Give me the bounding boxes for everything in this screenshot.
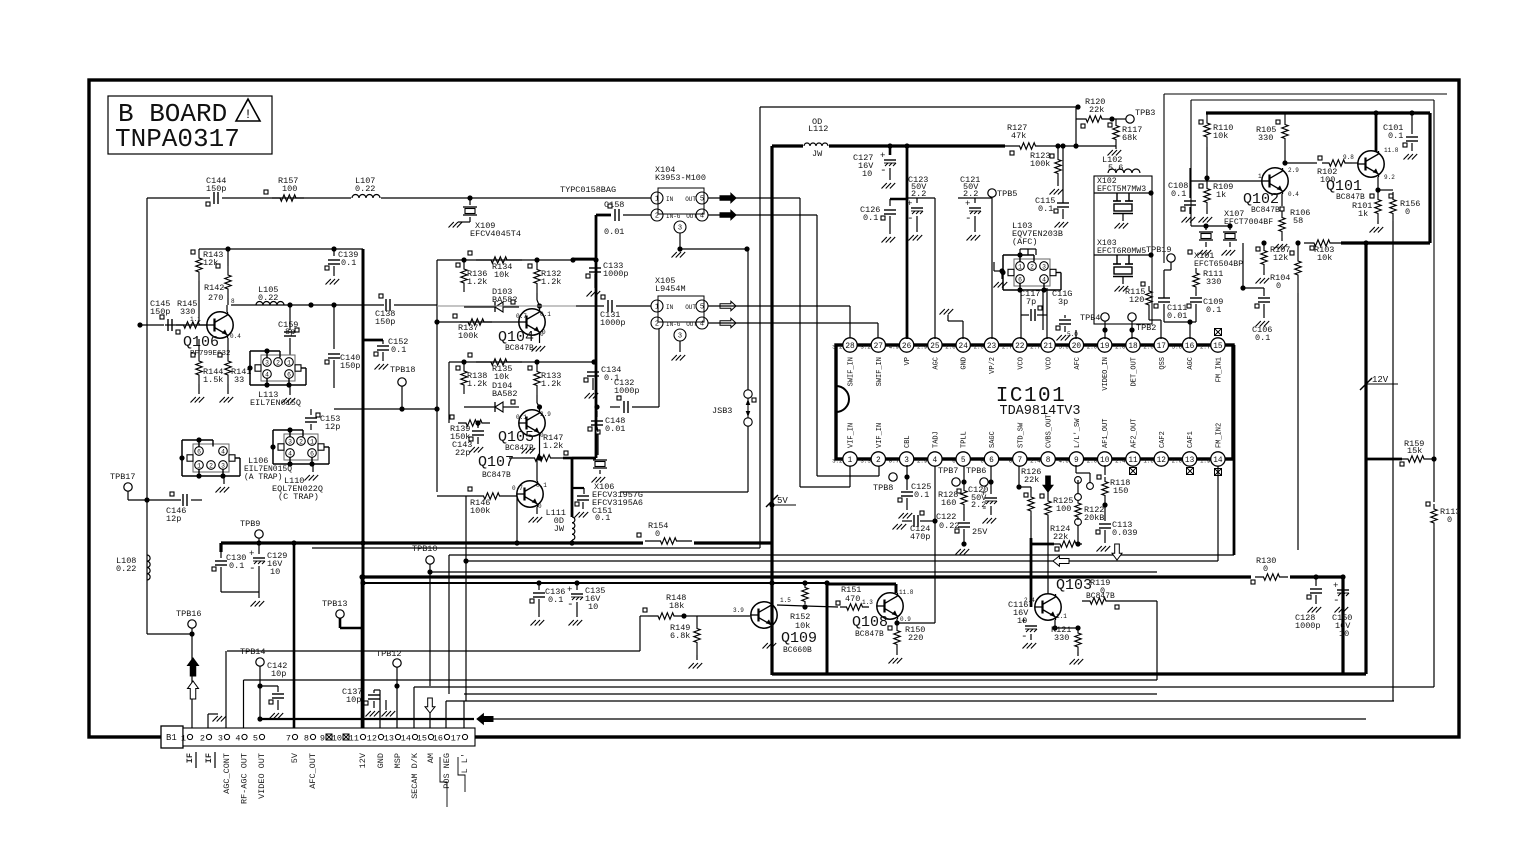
svg-text:8: 8 [231, 298, 235, 305]
svg-text:10p: 10p [271, 669, 286, 679]
transistor Q103 [1024, 577, 1115, 620]
wire Q104 base wire [437, 321, 519, 323]
svg-text:1.9: 1.9 [1200, 458, 1211, 465]
wire Q107 emitter gnd [529, 507, 543, 523]
arrow X104 out2 [720, 210, 736, 219]
svg-text:1: 1 [1018, 264, 1022, 271]
svg-text:TPB12: TPB12 [376, 649, 402, 659]
wire Q107 col [536, 458, 538, 481]
svg-text:3.2: 3.2 [832, 458, 843, 465]
svg-text:10k: 10k [1317, 253, 1332, 263]
title box [108, 96, 272, 154]
wire thin rect right [1164, 94, 1447, 459]
wire y651 to R148 [227, 616, 648, 651]
svg-text:150p: 150p [206, 184, 226, 194]
svg-text:2.0: 2.0 [1087, 458, 1098, 465]
svg-text:2.2: 2.2 [911, 189, 926, 199]
capacitor C127 [853, 143, 896, 188]
svg-text:BF799E632: BF799E632 [190, 350, 231, 358]
svg-text:5: 5 [961, 457, 966, 465]
svg-text:2.0: 2.0 [1115, 344, 1126, 351]
svg-text:2.4: 2.4 [1115, 458, 1126, 465]
resistor R157 [264, 176, 304, 201]
arrow down open pin15 [425, 698, 435, 713]
svg-text:L L': L L' [460, 753, 470, 773]
wire X104 to IC pin1 [708, 197, 800, 199]
wire Q101 col thick [1373, 110, 1378, 152]
svg-text:1.5: 1.5 [780, 597, 791, 604]
connector pins [181, 734, 468, 744]
transistor Q108 [852, 589, 914, 639]
resistor R123 [1030, 146, 1063, 195]
wire Q109 collector [777, 597, 838, 607]
resistor R119 [1078, 578, 1157, 680]
title text B BOARD [118, 99, 227, 129]
svg-text:EFCV4045T4: EFCV4045T4 [470, 229, 521, 239]
capacitor C143 [452, 423, 484, 458]
svg-text:2.0: 2.0 [974, 344, 985, 351]
svg-text:0.1: 0.1 [516, 414, 527, 421]
wire R120 step [1075, 104, 1080, 119]
svg-text:6: 6 [310, 451, 314, 458]
svg-text:R142: R142 [204, 283, 224, 293]
capacitor C106 [1252, 288, 1272, 343]
svg-text:6: 6 [287, 372, 291, 379]
svg-text:1.2k: 1.2k [467, 277, 487, 287]
warning triangle [236, 99, 260, 122]
wire pin4 riser [243, 680, 245, 737]
wire gray y=306 [437, 305, 576, 307]
svg-text:2.0: 2.0 [1172, 458, 1183, 465]
wire Q103 emitter [1052, 620, 1078, 631]
svg-text:GND: GND [376, 753, 386, 768]
svg-text:TPB8: TPB8 [873, 483, 893, 493]
svg-text:0.039: 0.039 [1112, 528, 1138, 538]
capacitor C115 [1035, 119, 1076, 228]
capacitor C130 [212, 543, 259, 592]
wire Q109 emitter gnd [763, 628, 777, 649]
svg-text:0.1: 0.1 [863, 213, 878, 223]
wire Q105 emitter [537, 436, 542, 461]
wire pin4 riser ic [932, 466, 937, 623]
resistor R113 [1426, 459, 1460, 687]
arrow X104 out1 [720, 193, 736, 202]
svg-text:11: 11 [1128, 457, 1138, 465]
wire R104 bottom [1297, 293, 1299, 550]
capacitor C135 [567, 580, 605, 625]
arrow video left [477, 714, 493, 724]
svg-text:1.2k: 1.2k [541, 277, 561, 287]
wire y=305 left [231, 302, 363, 307]
svg-text:3p: 3p [1058, 297, 1068, 307]
svg-text:5V: 5V [290, 752, 300, 763]
svg-text:TPB5: TPB5 [997, 189, 1017, 199]
wire Q108 emitter [888, 619, 900, 630]
svg-text:18: 18 [1128, 343, 1138, 351]
svg-text:IN: IN [666, 196, 674, 203]
svg-text:1.1: 1.1 [190, 316, 201, 323]
wire x=449 down [448, 555, 450, 694]
svg-text:1: 1 [197, 463, 201, 470]
svg-text:4: 4 [700, 213, 704, 221]
svg-text:AFC: AFC [1074, 357, 1082, 370]
svg-text:SWIF_IN: SWIF_IN [848, 357, 856, 386]
svg-text:10: 10 [588, 602, 598, 612]
inductor L108 [116, 555, 150, 580]
svg-text:0.1: 0.1 [229, 561, 244, 571]
test point TPB8 [873, 473, 907, 493]
svg-text:100: 100 [282, 184, 297, 194]
svg-text:QSS: QSS [1159, 357, 1167, 370]
resistor R105 [1256, 113, 1288, 166]
svg-text:7: 7 [1017, 457, 1022, 465]
arrow CVBS down [1043, 476, 1053, 492]
svg-text:10k: 10k [494, 270, 509, 280]
resistor R120 [1076, 97, 1115, 128]
wire 5V riser pin7 [293, 543, 296, 737]
svg-text:0: 0 [542, 329, 546, 336]
svg-text:12V: 12V [1372, 375, 1389, 385]
svg-text:2: 2 [876, 457, 881, 465]
svg-text:0: 0 [1447, 515, 1452, 525]
svg-text:330: 330 [1206, 277, 1221, 287]
wire video out y=719 [261, 718, 1366, 720]
svg-text:2: 2 [200, 734, 205, 744]
svg-text:3.9: 3.9 [733, 607, 744, 614]
svg-text:15: 15 [1213, 343, 1223, 351]
resistor R128 [938, 466, 967, 508]
svg-text:AFC_OUT: AFC_OUT [308, 753, 318, 789]
resistor R145 [176, 299, 207, 328]
resistor R152 [790, 585, 810, 631]
capacitor C111 [1154, 270, 1196, 322]
wire R123 tap [1075, 119, 1077, 146]
wire y=687 [414, 686, 1434, 688]
svg-text:160: 160 [941, 498, 956, 508]
test point TPB6 [966, 466, 994, 486]
capacitor C117 [1020, 288, 1047, 321]
svg-text:TPB18: TPB18 [390, 365, 416, 375]
wire pin16 riser [445, 701, 447, 737]
svg-text:FM_IN1: FM_IN1 [1215, 357, 1223, 382]
svg-text:AM: AM [426, 753, 436, 763]
svg-text:+: + [1333, 581, 1338, 591]
capacitor C101 [1383, 110, 1418, 159]
svg-text:JW: JW [812, 149, 823, 159]
capacitor C158 [604, 200, 651, 237]
wire pin3 riser [226, 651, 640, 737]
svg-text:3: 3 [678, 333, 682, 341]
resistor R146 [466, 487, 517, 516]
svg-text:0: 0 [655, 529, 660, 539]
svg-text:5.0: 5.0 [1067, 331, 1078, 338]
svg-text:FM_IN2: FM_IN2 [1215, 423, 1223, 448]
svg-text:1000p: 1000p [600, 318, 626, 328]
svg-text:17: 17 [451, 734, 461, 744]
svg-text:33: 33 [234, 375, 244, 385]
svg-text:+: + [880, 151, 885, 161]
resistor R139 [450, 415, 490, 442]
svg-text:TPLL: TPLL [961, 431, 969, 448]
svg-text:330: 330 [1054, 633, 1069, 643]
wire y=572 [430, 571, 1157, 573]
svg-text:SAGC: SAGC [989, 431, 997, 448]
resistor R110 [1199, 113, 1233, 181]
svg-text:47k: 47k [1011, 131, 1026, 141]
wire y=701 [446, 700, 1394, 702]
svg-text:TYPC0158BAG: TYPC0158BAG [560, 185, 616, 195]
svg-text:8: 8 [304, 734, 309, 744]
test point TPB5 [988, 189, 1018, 339]
svg-text:14: 14 [1213, 457, 1223, 465]
capacitor C144 [206, 176, 226, 206]
inductor L107 [352, 176, 380, 198]
svg-text:0.1: 0.1 [914, 490, 929, 500]
symbol nc pin14 [1215, 469, 1222, 476]
svg-text:CAF2: CAF2 [1159, 431, 1167, 448]
crystal X106 [592, 430, 644, 508]
svg-text:1: 1 [310, 439, 314, 446]
wire X105 to IC pin28 [708, 306, 850, 339]
test point TPB2 [1128, 313, 1157, 339]
test point TPB19 [1146, 245, 1175, 270]
capacitor C113 [1096, 520, 1138, 552]
svg-text:0.1: 0.1 [1171, 189, 1186, 199]
svg-text:K3953-M100: K3953-M100 [655, 173, 706, 183]
svg-text:(A TRAP): (A TRAP) [244, 473, 282, 482]
filter X103 [1094, 239, 1154, 292]
svg-text:17: 17 [1157, 343, 1167, 351]
wire x=760 down [759, 107, 761, 548]
transistor Q107 [478, 454, 547, 510]
svg-text:TPB6: TPB6 [966, 466, 986, 476]
svg-text:1.6: 1.6 [1143, 458, 1154, 465]
capacitor C142 [260, 661, 287, 719]
svg-text:22k: 22k [1089, 105, 1104, 115]
svg-text:23: 23 [987, 343, 997, 351]
diode D104 [464, 381, 519, 412]
svg-text:1000p: 1000p [1295, 621, 1321, 631]
resistor R138 [456, 362, 487, 394]
capacitor C134 [584, 362, 621, 399]
resistor R154 [637, 521, 692, 544]
svg-text:GND: GND [961, 357, 969, 370]
capacitor C133 [586, 257, 629, 296]
resistor R134 [468, 251, 522, 280]
capacitor C122 [936, 507, 988, 555]
svg-text:+: + [907, 199, 912, 209]
svg-text:JSB3: JSB3 [712, 406, 732, 416]
IC101 bottom pins [832, 414, 1225, 466]
svg-text:1.5k: 1.5k [203, 375, 223, 385]
transistor Q102 [1243, 167, 1299, 215]
wire pin25 riser [934, 198, 936, 339]
svg-text:JW: JW [554, 524, 565, 534]
capacitor C140 [325, 305, 360, 388]
svg-text:5: 5 [253, 734, 258, 744]
svg-text:+: + [567, 585, 572, 595]
svg-text:EFCT6504BP: EFCT6504BP [1194, 260, 1243, 269]
capacitor C137 [342, 687, 380, 737]
resistor R130 [1251, 556, 1288, 584]
svg-text:100k: 100k [470, 506, 490, 516]
wire bottom box net [1240, 240, 1368, 290]
wire thick x=1343 [1341, 577, 1344, 674]
svg-text:3: 3 [288, 439, 292, 446]
svg-text:12: 12 [367, 734, 377, 744]
svg-text:EIL7EN015Q: EIL7EN015Q [250, 398, 301, 408]
svg-text:0.4: 0.4 [230, 333, 241, 340]
wire pin9 jog [1076, 473, 1093, 489]
svg-text:L/L'_SW: L/L'_SW [1074, 418, 1082, 448]
test point TPB14 [240, 647, 266, 722]
svg-text:4: 4 [700, 321, 704, 329]
wire C115 stem [1060, 143, 1065, 203]
svg-text:10: 10 [332, 734, 342, 744]
resistor R125 [1040, 490, 1073, 594]
transistor Q104 [498, 309, 551, 353]
test point TPB18 [390, 365, 416, 412]
resistor R135 [468, 353, 522, 382]
wire X105 gnd [672, 341, 686, 361]
svg-text:2.7: 2.7 [1002, 344, 1013, 351]
filter X102 [1094, 177, 1154, 229]
svg-text:6: 6 [989, 457, 994, 465]
svg-text:!: ! [244, 107, 252, 122]
resistor R102 [1285, 154, 1358, 185]
svg-text:25: 25 [930, 343, 940, 351]
svg-text:150: 150 [1113, 486, 1128, 496]
svg-text:150p: 150p [375, 317, 395, 327]
arrow up open pin1 [188, 681, 199, 699]
svg-text:BC847B: BC847B [855, 630, 884, 639]
wire Q104 emitter gnd [532, 329, 547, 352]
svg-text:Q106: Q106 [183, 334, 219, 351]
svg-text:0: 0 [1405, 207, 1410, 217]
svg-text:25V: 25V [972, 527, 988, 537]
resistor R109 [1199, 181, 1234, 223]
arrow X105 out2 [720, 318, 736, 327]
svg-text:68k: 68k [1122, 133, 1137, 143]
junction bus1 [256, 540, 574, 585]
svg-text:R156: R156 [1400, 199, 1420, 209]
wire Q101 emit [1375, 177, 1393, 193]
svg-text:6: 6 [1018, 277, 1022, 284]
svg-text:0.01: 0.01 [1167, 311, 1187, 321]
IC101 name [996, 385, 1081, 419]
svg-text:2: 2 [299, 439, 303, 446]
wire 12V bus y=577 [362, 575, 1343, 578]
test point TPB9 [240, 519, 263, 543]
svg-text:10k: 10k [1213, 131, 1228, 141]
resistor R142 [204, 249, 235, 305]
wire Q102 base [1191, 173, 1262, 181]
resistor R106 [1274, 194, 1311, 250]
capacitor C125 [898, 465, 931, 519]
svg-text:13: 13 [1185, 457, 1195, 465]
svg-text:2.2: 2.2 [971, 500, 986, 510]
wire thick Q108 collector [827, 584, 896, 593]
label TYPC0158BAG [560, 185, 616, 195]
wire Q106 base [165, 322, 207, 325]
svg-text:4: 4 [221, 449, 225, 456]
wire Q106 collector up [226, 305, 228, 312]
capacitor C148 [588, 404, 625, 434]
svg-text:OUT: OUT [686, 321, 697, 328]
svg-text:0: 0 [1009, 458, 1013, 465]
symbol nc pin11 [1130, 468, 1137, 475]
resistor R136 [456, 260, 487, 292]
thick box Q101 [1206, 113, 1430, 243]
wire X104out2 to IC pin2 [708, 215, 879, 476]
svg-text:2.9: 2.9 [540, 411, 551, 418]
capacitor C126 [860, 205, 896, 243]
capacitor C150 [1332, 574, 1352, 639]
svg-text:SWIF_IN: SWIF_IN [876, 357, 884, 386]
wire Q103 base thick [1030, 538, 1033, 607]
label 5V arrow [766, 495, 796, 508]
wire x1396 down [1393, 107, 1395, 192]
svg-text:11.8: 11.8 [1384, 147, 1399, 154]
svg-text:2.2: 2.2 [963, 189, 978, 199]
svg-text:0.1: 0.1 [391, 345, 406, 355]
svg-text:11.8: 11.8 [899, 589, 914, 596]
connector B1 box [161, 726, 183, 748]
svg-text:28: 28 [845, 343, 855, 351]
svg-text:VP/2: VP/2 [989, 357, 997, 374]
resistor R124 [1050, 524, 1082, 551]
svg-text:TNPA0317: TNPA0317 [115, 124, 240, 154]
svg-text:AF1_OUT: AF1_OUT [1102, 419, 1110, 448]
wire X105 to IC pin27 [708, 323, 878, 339]
svg-text:2: 2 [209, 463, 213, 470]
svg-text:1k: 1k [1216, 190, 1226, 200]
svg-text:Q107: Q107 [478, 454, 514, 471]
svg-text:IF: IF [204, 753, 214, 763]
capacitor C152 [363, 337, 408, 370]
capacitor C132 [519, 329, 659, 413]
module L110 [270, 427, 329, 502]
thick stub R124 [1031, 543, 1054, 546]
resistor R137 [453, 314, 492, 341]
svg-text:0.22: 0.22 [116, 564, 136, 574]
arrow X105 out1 [720, 301, 736, 310]
wire y=583 taps [769, 580, 829, 585]
wire y=555 [449, 554, 1234, 556]
svg-text:VCO: VCO [1046, 357, 1054, 370]
resistor R143 [191, 249, 223, 281]
svg-text:13: 13 [384, 734, 394, 744]
wire y=409 TPB18 [334, 408, 437, 410]
svg-text:OUT: OUT [686, 213, 697, 220]
svg-text:RF-AGC OUT: RF-AGC OUT [240, 753, 250, 804]
resistor R115 [1125, 276, 1161, 339]
wire pin21 route [1046, 315, 1048, 339]
wire y=561 [466, 560, 1218, 562]
svg-text:15k: 15k [1407, 446, 1422, 456]
svg-text:6.8k: 6.8k [670, 631, 690, 641]
connector labels [185, 752, 470, 804]
svg-text:0: 0 [981, 458, 985, 465]
svg-text:0.7: 0.7 [516, 313, 527, 320]
svg-text:9: 9 [320, 734, 325, 744]
wire pin24 gnd [940, 309, 964, 339]
svg-text:0.1: 0.1 [341, 258, 356, 268]
svg-text:2: 2 [1030, 264, 1034, 271]
wire left vertical x=147 [147, 198, 192, 634]
svg-text:0.7: 0.7 [889, 458, 900, 465]
resistor R141 [218, 338, 251, 403]
